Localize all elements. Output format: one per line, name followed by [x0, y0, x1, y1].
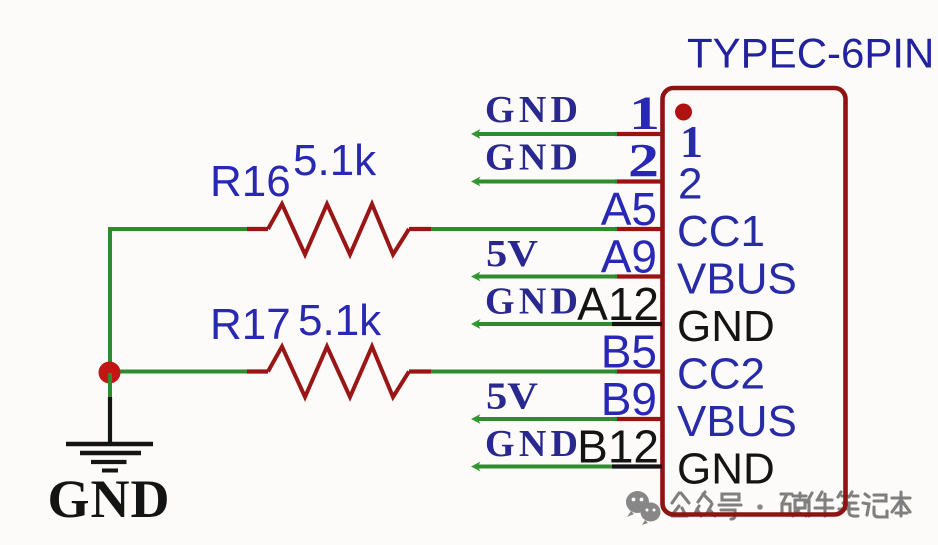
value 5.1k (R17) [298, 296, 382, 345]
wire 5V to pin A9 [477, 275, 617, 279]
svg-text:2: 2 [628, 135, 659, 188]
svg-text:GND: GND [48, 469, 170, 529]
net label 5V (B9) [486, 376, 539, 418]
pin number B9 [601, 373, 657, 425]
net flag arrow GND (A12) [471, 319, 481, 329]
pin number B5 [601, 326, 657, 378]
net label 5V (A9) [486, 233, 539, 275]
net label GND (pin 1) [485, 89, 578, 131]
svg-text:GND: GND [485, 89, 578, 131]
value 5.1k (R16) [293, 136, 377, 185]
svg-text:GND: GND [485, 423, 578, 465]
pin name GND (B12) [677, 445, 775, 494]
pin 2 stub [615, 179, 662, 183]
pin 1 marker dot [675, 104, 692, 121]
net label GND (A12) [485, 281, 578, 323]
svg-text:VBUS: VBUS [677, 255, 797, 304]
net flag arrow GND (pin 2) [471, 177, 481, 187]
wire GND to pin 2 [477, 180, 617, 184]
pin name GND (A12) [677, 302, 775, 351]
resistor R17 [247, 347, 431, 398]
pin name CC2 [677, 350, 765, 399]
svg-text:5.1k: 5.1k [293, 136, 377, 185]
svg-text:R17: R17 [210, 300, 291, 349]
svg-text:GND: GND [485, 281, 578, 323]
svg-text:GND: GND [677, 445, 775, 494]
pin name VBUS (B9) [677, 397, 797, 446]
wire vertical corner to junction [108, 227, 112, 373]
pin number B12 [577, 421, 659, 473]
svg-text:5.1k: 5.1k [298, 296, 382, 345]
svg-text:TYPEC-6PIN: TYPEC-6PIN [687, 30, 934, 77]
pin A9 stub [615, 274, 662, 278]
wire R16 left to corner [108, 227, 249, 231]
label R17 [210, 300, 291, 349]
wire GND to pin A12 [477, 322, 612, 326]
ground net label GND [48, 469, 170, 529]
net flag arrow 5V (B9) [471, 414, 481, 424]
pin number 1 [629, 87, 660, 140]
svg-text:R16: R16 [210, 157, 291, 206]
svg-text:CC1: CC1 [677, 207, 765, 256]
pin name 2 [678, 160, 702, 209]
pin number A12 [577, 278, 659, 330]
svg-text:VBUS: VBUS [677, 397, 797, 446]
wire GND to pin 1 [477, 132, 617, 136]
pin number A9 [601, 231, 657, 283]
wire R17 to pin B5 [431, 370, 617, 374]
pin A5 stub [615, 227, 662, 231]
net label GND (B12) [485, 423, 578, 465]
net label GND (pin 2) [485, 137, 578, 179]
svg-text:1: 1 [629, 87, 660, 140]
label R16 [210, 157, 291, 206]
pin name CC1 [677, 207, 765, 256]
resistor R16 [247, 204, 431, 255]
pin 1 stub [615, 132, 662, 136]
net flag arrow 5V (A9) [471, 272, 481, 282]
net flag arrow GND (pin 1) [471, 129, 481, 139]
connector J1 TYPEC-6PIN body [663, 88, 846, 515]
background & watermark (decorative, unlabeled) [626, 491, 910, 525]
pin A12 stub [612, 322, 662, 326]
ground symbol [66, 397, 153, 471]
svg-text:CC2: CC2 [677, 350, 765, 399]
wire junction to ground pin (green stub) [108, 373, 112, 399]
svg-text:GND: GND [677, 302, 775, 351]
wire junction to R17 [110, 370, 249, 374]
svg-text:5V: 5V [486, 233, 539, 275]
junction dot [99, 362, 121, 384]
pin B5 stub [615, 369, 662, 373]
wire GND to pin B12 [477, 465, 612, 469]
pin B9 stub [615, 417, 662, 421]
net flag arrow GND (B12) [471, 462, 481, 472]
svg-text:2: 2 [678, 160, 702, 209]
svg-text:GND: GND [485, 137, 578, 179]
pin B12 stub [612, 464, 662, 468]
wire 5V to pin B9 [477, 417, 617, 421]
svg-text:5V: 5V [486, 376, 539, 418]
pin name 1 [680, 116, 703, 167]
refdes/value label TYPEC-6PIN [687, 30, 934, 77]
pin number A5 [601, 183, 657, 235]
pin name VBUS (A9) [677, 255, 797, 304]
pin number 2 [628, 135, 659, 188]
wire R16 to pin A5 [431, 227, 617, 231]
